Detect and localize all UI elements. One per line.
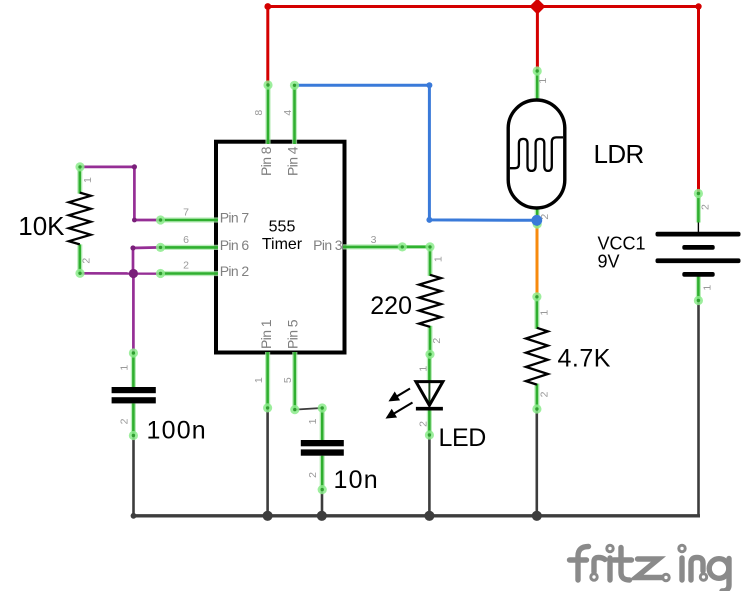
node battery pin1 end <box>694 296 703 305</box>
svg-text:1: 1 <box>82 177 94 183</box>
node 220-LED junction <box>425 350 434 359</box>
svg-text:220: 220 <box>370 292 412 320</box>
wire purple 10K.1 to pin7 <box>80 167 161 220</box>
battery VCC1 9V <box>656 192 741 302</box>
svg-text:4: 4 <box>282 110 294 116</box>
LED <box>388 354 443 435</box>
wire purple pin6 to pin2 net <box>133 247 161 273</box>
svg-text:Pin 7: Pin 7 <box>220 210 250 226</box>
wire ground rail <box>134 514 701 517</box>
node 220 pin1 end <box>425 242 434 251</box>
svg-text:2: 2 <box>307 472 319 478</box>
svg-text:1: 1 <box>418 366 430 372</box>
op-amp U1 555 Timer box <box>216 142 345 353</box>
wire dark battery to rail <box>697 302 700 516</box>
svg-text:1: 1 <box>119 365 131 371</box>
pin 1 stub of U1 <box>265 352 270 408</box>
svg-text:1: 1 <box>537 78 549 84</box>
svg-text:LDR: LDR <box>594 139 644 169</box>
node blue endpoint dot at LDR pin2 <box>531 215 542 226</box>
resistor 10K <box>69 167 91 273</box>
svg-text:Pin 5: Pin 5 <box>285 319 301 349</box>
pin 5 stub of U1 <box>292 352 297 410</box>
svg-text:Timer: Timer <box>262 236 303 253</box>
svg-text:8: 8 <box>253 110 265 116</box>
wire dark LED to rail <box>428 435 431 516</box>
svg-text:7: 7 <box>183 207 189 219</box>
photoresistor LDR <box>508 70 565 226</box>
node pin4-blue junction <box>290 81 299 90</box>
wire dark pin1 to ground rail <box>266 408 269 516</box>
resistor 220 <box>419 247 441 354</box>
node rail bend dot <box>131 513 137 519</box>
resistor 4.7K <box>526 297 548 409</box>
fritzing watermark logo <box>570 545 730 591</box>
wire green pin3 to 220 <box>402 245 430 248</box>
pin 3 stub of U1 <box>343 244 402 249</box>
svg-text:1: 1 <box>702 285 714 291</box>
node 4.7K pin2 end <box>532 404 541 413</box>
svg-text:5: 5 <box>282 377 294 383</box>
node rail junction 4.7K <box>532 511 542 521</box>
wire purple 10K.2 / pin2 / 100n.1 <box>80 272 161 275</box>
wire orange LDR pin2 to 4.7K pin1 <box>536 222 539 297</box>
svg-text:3: 3 <box>371 234 377 246</box>
svg-text:4.7K: 4.7K <box>558 345 611 373</box>
capacitor 10n <box>301 408 344 490</box>
node pin3 wire end <box>398 242 407 251</box>
node pin2 wire end <box>156 269 165 278</box>
svg-text:6: 6 <box>183 234 189 246</box>
pin 8 stub of U1 <box>265 85 270 144</box>
node pin7 wire end <box>156 215 165 224</box>
svg-text:2: 2 <box>418 421 430 427</box>
pin 6 stub of U1 <box>161 245 219 250</box>
node 4.7K pin1 end <box>532 292 541 301</box>
pin 4 stub of U1 <box>292 85 297 144</box>
node red bend dot right <box>695 3 701 9</box>
node red bend dot left <box>264 3 271 10</box>
node 10K pin2 end <box>75 269 84 278</box>
svg-text:1: 1 <box>253 377 265 383</box>
svg-text:2: 2 <box>119 418 131 424</box>
wire dark 100n to rail <box>132 436 135 517</box>
svg-text:2: 2 <box>81 258 93 264</box>
node purple junction dot <box>129 269 138 278</box>
svg-text:10K: 10K <box>18 211 65 241</box>
pin 2 stub of U1 <box>161 271 219 276</box>
node pin6 wire end <box>156 243 165 252</box>
svg-text:1: 1 <box>539 310 551 316</box>
node rail junction pin1 <box>263 511 273 521</box>
node rail junction 10n <box>317 511 327 521</box>
node 10n pin2 end <box>318 485 327 494</box>
node 100n pin1 end <box>129 348 138 357</box>
svg-text:Pin 2: Pin 2 <box>220 263 250 279</box>
svg-text:1: 1 <box>307 418 319 424</box>
node LDR pin1 end <box>533 66 542 75</box>
svg-text:2: 2 <box>700 204 712 210</box>
svg-text:2: 2 <box>183 260 189 272</box>
wire dark 4.7K to rail <box>535 409 538 516</box>
node 10K pin1 end <box>75 162 84 171</box>
svg-text:Pin 6: Pin 6 <box>220 237 250 253</box>
wire red drop to LDR pin1 <box>536 7 539 73</box>
wire VCC top rail (red) <box>268 7 700 86</box>
svg-text:Pin 1: Pin 1 <box>258 319 274 349</box>
pin 7 stub of U1 <box>161 217 219 222</box>
svg-text:Pin 3: Pin 3 <box>313 237 343 253</box>
svg-text:555: 555 <box>269 219 296 236</box>
wire dark 10n to rail <box>321 490 324 516</box>
node 100n pin2 end <box>129 431 138 440</box>
node pin5 wire end <box>290 405 299 414</box>
node pin8-red junction <box>263 80 272 89</box>
svg-text:LED: LED <box>439 424 486 452</box>
LED emission arrows <box>388 389 413 418</box>
node 10n pin1 end <box>318 403 327 412</box>
svg-text:2: 2 <box>539 391 551 397</box>
wire dark pin5 to 10n <box>295 408 322 410</box>
node LED pin2 end <box>425 430 434 439</box>
node red junction diamond <box>529 0 545 15</box>
svg-text:100n: 100n <box>147 417 207 445</box>
svg-text:Pin 8: Pin 8 <box>258 146 274 176</box>
svg-text:9V: 9V <box>598 252 620 272</box>
capacitor 100n <box>112 353 156 436</box>
svg-text:1: 1 <box>433 256 445 262</box>
node battery pin2 end <box>694 189 703 198</box>
svg-text:VCC1: VCC1 <box>598 234 646 254</box>
svg-text:Pin 4: Pin 4 <box>285 146 301 176</box>
node pin1 wire end <box>263 403 272 412</box>
svg-text:10n: 10n <box>334 466 379 494</box>
wire blue pin4 to LDR pin2 <box>296 85 537 220</box>
node LDR pin2 end <box>533 219 542 228</box>
node rail junction LED <box>424 511 434 521</box>
svg-text:2: 2 <box>431 338 443 344</box>
